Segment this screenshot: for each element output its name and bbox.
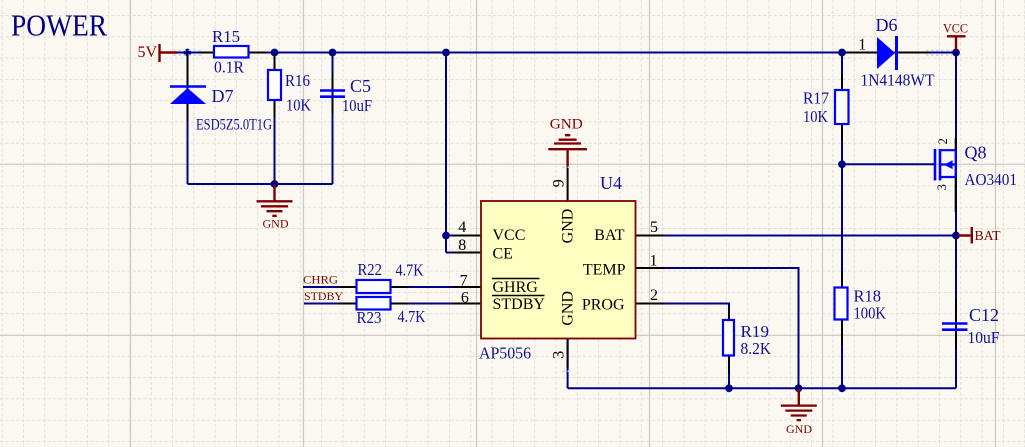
svg-text:STDBY: STDBY [493, 296, 546, 313]
svg-text:D7: D7 [212, 86, 234, 106]
svg-text:5: 5 [650, 219, 658, 236]
svg-text:4: 4 [458, 219, 466, 236]
svg-text:AP5056: AP5056 [479, 344, 531, 363]
svg-text:R15: R15 [212, 27, 240, 46]
svg-text:8.2K: 8.2K [741, 339, 772, 358]
svg-text:8: 8 [458, 237, 466, 254]
svg-text:R16: R16 [285, 71, 310, 90]
svg-text:GND: GND [560, 209, 577, 244]
svg-text:TEMP: TEMP [583, 262, 626, 279]
svg-text:C5: C5 [350, 76, 371, 96]
svg-text:BAT: BAT [975, 229, 1001, 244]
svg-text:POWER: POWER [11, 8, 107, 43]
svg-text:ESD5Z5.0T1G: ESD5Z5.0T1G [196, 117, 272, 134]
svg-text:5V: 5V [138, 44, 158, 61]
svg-text:VCC: VCC [943, 21, 968, 36]
svg-text:2: 2 [650, 287, 658, 304]
svg-text:10K: 10K [803, 107, 829, 126]
svg-text:GND: GND [263, 217, 289, 231]
svg-text:GHRG: GHRG [493, 279, 539, 296]
svg-text:GND: GND [560, 291, 577, 326]
svg-text:4.7K: 4.7K [396, 261, 425, 280]
svg-text:R23: R23 [357, 308, 382, 327]
svg-text:Q8: Q8 [965, 143, 987, 163]
svg-text:R22: R22 [358, 260, 383, 279]
svg-text:STDBY: STDBY [304, 289, 343, 303]
svg-text:10K: 10K [286, 96, 312, 115]
svg-text:CE: CE [493, 246, 513, 263]
svg-text:4.7K: 4.7K [398, 307, 427, 326]
svg-text:1: 1 [650, 252, 658, 269]
svg-text:GND: GND [786, 422, 812, 436]
svg-text:7: 7 [460, 272, 468, 289]
svg-text:GND: GND [550, 117, 583, 133]
svg-text:VCC: VCC [493, 227, 526, 244]
svg-text:R17: R17 [803, 89, 829, 108]
svg-text:1: 1 [858, 37, 866, 54]
svg-text:3: 3 [550, 351, 567, 359]
svg-text:2: 2 [936, 138, 950, 144]
svg-text:CHRG: CHRG [303, 273, 338, 287]
svg-text:100K: 100K [854, 304, 887, 323]
svg-text:C12: C12 [969, 305, 999, 325]
svg-text:6: 6 [461, 289, 469, 306]
svg-text:PROG: PROG [582, 297, 625, 314]
svg-text:10uF: 10uF [968, 328, 1000, 347]
svg-text:AO3401: AO3401 [965, 170, 1018, 189]
svg-text:10uF: 10uF [342, 96, 372, 115]
svg-text:BAT: BAT [594, 227, 624, 244]
svg-text:D6: D6 [876, 15, 898, 35]
svg-text:0.1R: 0.1R [214, 58, 245, 77]
svg-text:1N4148WT: 1N4148WT [861, 71, 936, 90]
svg-text:U4: U4 [600, 173, 622, 193]
svg-text:9: 9 [551, 179, 568, 187]
svg-text:3: 3 [935, 184, 949, 190]
